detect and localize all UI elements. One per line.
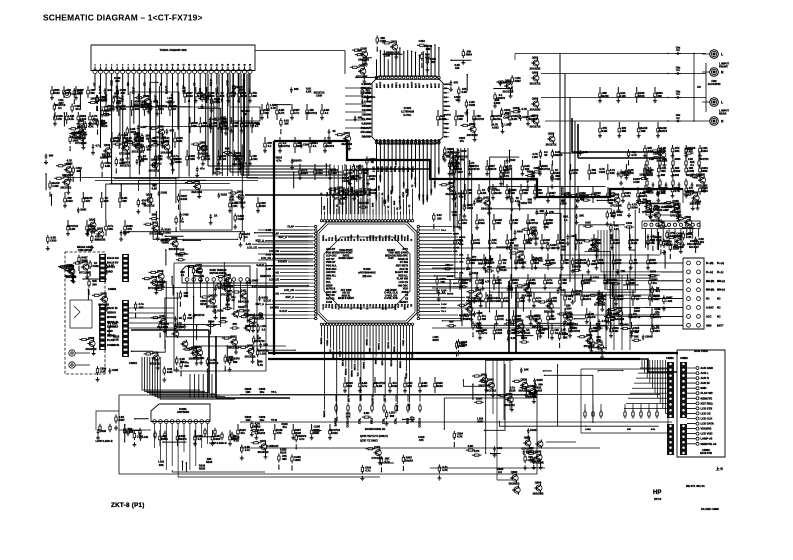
svg-text:560: 560 bbox=[528, 201, 533, 205]
svg-text:1K: 1K bbox=[555, 331, 558, 335]
svg-text:22: 22 bbox=[210, 65, 212, 67]
svg-text:CODE-A: CODE-A bbox=[419, 418, 422, 428]
svg-text:LCD_CE: LCD_CE bbox=[247, 247, 257, 250]
svg-text:16: 16 bbox=[177, 65, 179, 67]
svg-text:R123: R123 bbox=[436, 384, 443, 388]
svg-text:MR-(B): MR-(B) bbox=[706, 280, 714, 283]
svg-text:C204: C204 bbox=[496, 331, 503, 335]
svg-text:2SA1162: 2SA1162 bbox=[191, 190, 202, 194]
svg-text:SEG02: SEG02 bbox=[321, 337, 323, 345]
svg-text:LCD: LCD bbox=[385, 398, 387, 403]
svg-text:0.022: 0.022 bbox=[261, 296, 268, 300]
svg-text:COM0: COM0 bbox=[357, 234, 359, 241]
svg-text:GND: GND bbox=[396, 139, 398, 144]
svg-text:C204: C204 bbox=[645, 334, 652, 338]
svg-text:4.7u: 4.7u bbox=[362, 384, 368, 388]
svg-text:0.01: 0.01 bbox=[617, 213, 623, 217]
svg-text:680: 680 bbox=[147, 148, 152, 152]
svg-text:47K: 47K bbox=[277, 431, 282, 435]
svg-text:2SC2712: 2SC2712 bbox=[189, 357, 200, 361]
svg-text:R215: R215 bbox=[461, 343, 468, 347]
svg-text:2.2K: 2.2K bbox=[100, 99, 106, 103]
svg-text:SW1: SW1 bbox=[427, 138, 429, 144]
svg-text:2SC2712: 2SC2712 bbox=[150, 361, 161, 365]
svg-text:4.7u: 4.7u bbox=[69, 117, 75, 121]
svg-text:10u: 10u bbox=[260, 390, 265, 394]
svg-text:SCHEMATIC DIAGRAM – 1<CT-FX7: SCHEMATIC DIAGRAM – 1<CT-FX719> bbox=[43, 13, 203, 23]
svg-text:10K: 10K bbox=[108, 227, 113, 231]
svg-text:REMOTE: REMOTE bbox=[701, 396, 713, 400]
svg-text:AUX IN: AUX IN bbox=[701, 381, 710, 385]
svg-text:6: 6 bbox=[122, 65, 123, 67]
svg-text:KEY_A: KEY_A bbox=[286, 296, 295, 299]
svg-text:10u/16: 10u/16 bbox=[587, 315, 596, 319]
svg-text:26: 26 bbox=[232, 65, 234, 67]
svg-text:L: L bbox=[721, 100, 723, 104]
svg-text:LCD STB: LCD STB bbox=[701, 406, 713, 410]
svg-text:560: 560 bbox=[478, 261, 483, 265]
svg-text:6.8K: 6.8K bbox=[152, 187, 158, 191]
svg-text:L101: L101 bbox=[142, 435, 148, 439]
svg-text:C316: C316 bbox=[633, 329, 640, 333]
svg-text:ZKT-8 (P1): ZKT-8 (P1) bbox=[111, 502, 145, 509]
svg-text:6.8K: 6.8K bbox=[462, 90, 468, 94]
svg-text:3A DEC 1999: 3A DEC 1999 bbox=[701, 507, 719, 511]
svg-text:47u: 47u bbox=[460, 139, 465, 143]
svg-text:SEG9: SEG9 bbox=[383, 303, 385, 310]
svg-text:D102: D102 bbox=[186, 94, 193, 98]
svg-text:L101: L101 bbox=[666, 299, 672, 303]
svg-text:1S2473: 1S2473 bbox=[293, 158, 303, 162]
svg-text:LOW 0.4SS B: LOW 0.4SS B bbox=[95, 439, 112, 443]
svg-text:2SC2712: 2SC2712 bbox=[467, 133, 478, 137]
svg-text:SI: SI bbox=[411, 239, 413, 241]
svg-text:C316: C316 bbox=[214, 437, 221, 441]
svg-text:C316: C316 bbox=[331, 431, 338, 435]
svg-text:NO-KEY: NO-KEY bbox=[689, 245, 699, 249]
svg-text:0.1: 0.1 bbox=[181, 273, 185, 277]
svg-text:1: 1 bbox=[94, 65, 95, 67]
svg-text:GND: GND bbox=[701, 386, 707, 390]
svg-text:1K: 1K bbox=[503, 261, 506, 265]
svg-text:FRONT: FRONT bbox=[719, 65, 728, 69]
svg-text:DTC114E: DTC114E bbox=[206, 304, 218, 308]
svg-text:47K: 47K bbox=[57, 117, 62, 121]
svg-text:560: 560 bbox=[90, 91, 95, 95]
svg-text:10u/16: 10u/16 bbox=[493, 117, 502, 121]
svg-text:390: 390 bbox=[647, 169, 652, 173]
svg-text:1K: 1K bbox=[232, 298, 235, 302]
svg-text:47K: 47K bbox=[232, 322, 237, 326]
svg-text:33K: 33K bbox=[675, 149, 680, 153]
svg-text:R123: R123 bbox=[546, 281, 553, 285]
svg-text:VLC: VLC bbox=[358, 372, 360, 377]
svg-text:L101: L101 bbox=[252, 157, 258, 161]
svg-text:0.01: 0.01 bbox=[534, 261, 540, 265]
svg-text:R407: R407 bbox=[549, 317, 556, 321]
svg-text:20: 20 bbox=[199, 65, 201, 67]
svg-text:18: 18 bbox=[188, 65, 190, 67]
svg-text:2SC2712: 2SC2712 bbox=[530, 124, 541, 128]
svg-text:5: 5 bbox=[117, 65, 118, 67]
svg-text:2SC2712: 2SC2712 bbox=[473, 117, 484, 121]
svg-text:R123: R123 bbox=[280, 451, 287, 455]
svg-text:TP-R: TP-R bbox=[271, 418, 277, 422]
svg-text:220: 220 bbox=[525, 167, 530, 171]
svg-text:C-VOL STB: C-VOL STB bbox=[384, 297, 398, 300]
svg-text:0.01: 0.01 bbox=[591, 171, 597, 175]
svg-text:0.1: 0.1 bbox=[158, 162, 162, 166]
svg-text:D102: D102 bbox=[161, 191, 168, 195]
svg-text:SEG9: SEG9 bbox=[395, 303, 397, 310]
svg-text:R123: R123 bbox=[206, 460, 213, 464]
svg-text:28: 28 bbox=[243, 65, 245, 67]
svg-text:390: 390 bbox=[92, 282, 97, 286]
svg-text:C410: C410 bbox=[182, 212, 189, 216]
svg-text:GND: GND bbox=[411, 139, 413, 144]
svg-text:R215: R215 bbox=[536, 378, 543, 382]
svg-text:TO-1: TO-1 bbox=[441, 230, 447, 232]
svg-text:MUT: MUT bbox=[408, 83, 410, 88]
svg-text:390: 390 bbox=[458, 117, 463, 121]
svg-text:AIN: AIN bbox=[426, 84, 429, 88]
svg-text:0.022: 0.022 bbox=[492, 126, 499, 130]
svg-text:COM1: COM1 bbox=[327, 339, 329, 346]
svg-text:10u: 10u bbox=[260, 418, 265, 422]
svg-text:MODE2: MODE2 bbox=[107, 315, 117, 319]
svg-text:INT0: INT0 bbox=[335, 303, 337, 309]
svg-text:33K: 33K bbox=[426, 47, 431, 51]
svg-text:0.01: 0.01 bbox=[107, 88, 113, 92]
svg-text:DTC114E: DTC114E bbox=[356, 75, 368, 79]
svg-text:C105: C105 bbox=[546, 221, 553, 225]
svg-text:2.2K: 2.2K bbox=[481, 191, 487, 195]
svg-text:4.7K: 4.7K bbox=[457, 435, 463, 439]
svg-text:2SA1162: 2SA1162 bbox=[98, 303, 109, 307]
svg-text:390: 390 bbox=[462, 221, 467, 225]
svg-text:100: 100 bbox=[284, 122, 289, 126]
svg-text:R407: R407 bbox=[517, 230, 524, 234]
svg-text:ACC: ACC bbox=[706, 315, 712, 318]
svg-text:390: 390 bbox=[115, 79, 120, 83]
svg-text:680: 680 bbox=[449, 320, 454, 324]
svg-text:13: 13 bbox=[160, 65, 162, 67]
svg-text:100K: 100K bbox=[294, 458, 300, 462]
svg-text:2SC2712: 2SC2712 bbox=[546, 142, 557, 146]
svg-text:19: 19 bbox=[194, 65, 196, 67]
svg-text:0.1: 0.1 bbox=[268, 144, 272, 148]
svg-text:220: 220 bbox=[437, 216, 442, 220]
svg-text:SEG2: SEG2 bbox=[370, 234, 372, 241]
svg-text:(M)-xxx: (M)-xxx bbox=[362, 274, 372, 278]
svg-text:4.7K: 4.7K bbox=[121, 107, 127, 111]
svg-text:P-ON: P-ON bbox=[326, 301, 332, 304]
svg-text:CN221: CN221 bbox=[129, 361, 138, 365]
svg-text:SEG2: SEG2 bbox=[398, 234, 400, 241]
svg-text:21: 21 bbox=[205, 65, 207, 67]
svg-text:MR-(B): MR-(B) bbox=[706, 289, 714, 292]
svg-text:uPD780344GC: uPD780344GC bbox=[358, 270, 376, 274]
svg-text:C410: C410 bbox=[633, 180, 640, 184]
svg-text:47K: 47K bbox=[170, 129, 175, 133]
svg-text:VLC: VLC bbox=[348, 398, 350, 403]
svg-text:1K: 1K bbox=[214, 214, 217, 218]
svg-text:GND: GND bbox=[706, 324, 712, 327]
svg-text:P-ON: P-ON bbox=[441, 304, 447, 306]
svg-text:TN101 FAE94P-402: TN101 FAE94P-402 bbox=[159, 48, 186, 52]
svg-text:33K: 33K bbox=[513, 281, 518, 285]
svg-text:390: 390 bbox=[609, 201, 614, 205]
svg-text:390: 390 bbox=[184, 364, 189, 368]
svg-text:12: 12 bbox=[155, 65, 157, 67]
svg-text:VDD(5V): VDD(5V) bbox=[701, 427, 712, 431]
svg-text:2SC2712: 2SC2712 bbox=[245, 355, 256, 359]
svg-text:4.7K: 4.7K bbox=[521, 107, 527, 111]
svg-text:L101: L101 bbox=[532, 155, 538, 159]
svg-text:VDD: VDD bbox=[392, 83, 394, 88]
svg-text:0.022: 0.022 bbox=[461, 281, 468, 285]
svg-text:47K: 47K bbox=[360, 131, 365, 134]
svg-text:SEG: SEG bbox=[385, 199, 387, 204]
svg-text:LC75341M: LC75341M bbox=[401, 109, 414, 113]
svg-text:NC: NC bbox=[717, 307, 721, 310]
svg-text:MAIN 5 GENT: MAIN 5 GENT bbox=[338, 297, 355, 300]
svg-text:2.2: 2.2 bbox=[498, 470, 502, 474]
svg-text:2: 2 bbox=[100, 65, 101, 67]
svg-text:2SC2712: 2SC2712 bbox=[699, 158, 710, 161]
svg-text:11: 11 bbox=[149, 65, 151, 67]
svg-text:0.1: 0.1 bbox=[325, 111, 329, 115]
svg-text:220: 220 bbox=[562, 281, 567, 285]
svg-text:680: 680 bbox=[622, 129, 627, 133]
svg-text:A-BAT: A-BAT bbox=[706, 307, 714, 310]
svg-text:MUT: MUT bbox=[419, 83, 421, 88]
svg-text:10K: 10K bbox=[246, 418, 251, 422]
svg-text:S-DATA: S-DATA bbox=[278, 261, 287, 264]
svg-text:2SA1162: 2SA1162 bbox=[544, 309, 555, 313]
svg-text:10K: 10K bbox=[579, 214, 584, 218]
svg-text:C204: C204 bbox=[565, 306, 572, 310]
svg-text:0.1: 0.1 bbox=[58, 106, 62, 110]
svg-text:100: 100 bbox=[513, 221, 518, 225]
svg-text:R304: R304 bbox=[631, 206, 638, 210]
svg-text:C316: C316 bbox=[130, 130, 137, 134]
svg-text:VLC1: VLC1 bbox=[351, 303, 353, 309]
svg-text:2SC2712: 2SC2712 bbox=[132, 150, 143, 154]
svg-text:LCD CLK: LCD CLK bbox=[701, 417, 713, 421]
svg-text:4.7K: 4.7K bbox=[625, 194, 631, 198]
svg-text:33K: 33K bbox=[139, 305, 144, 309]
svg-text:2SA1162: 2SA1162 bbox=[530, 66, 541, 70]
svg-text:SEG9: SEG9 bbox=[405, 303, 407, 310]
svg-text:9: 9 bbox=[139, 65, 140, 67]
svg-text:FLAP: FLAP bbox=[287, 225, 294, 228]
svg-text:SEG01: SEG01 bbox=[345, 368, 347, 376]
svg-text:47K: 47K bbox=[454, 80, 459, 84]
svg-text:SEG01: SEG01 bbox=[379, 342, 381, 350]
svg-text:FL-(-): FL-(-) bbox=[717, 271, 724, 274]
svg-text:1K: 1K bbox=[568, 297, 571, 301]
svg-text:FLAP SW: FLAP SW bbox=[701, 391, 714, 395]
svg-text:DTC114E: DTC114E bbox=[682, 226, 694, 230]
svg-text:GND: GND bbox=[107, 329, 113, 333]
svg-text:2.2K: 2.2K bbox=[628, 171, 634, 175]
svg-text:AUX GND: AUX GND bbox=[701, 366, 713, 370]
svg-text:4.7u: 4.7u bbox=[299, 437, 305, 441]
svg-text:33K: 33K bbox=[634, 334, 639, 338]
svg-text:47u: 47u bbox=[601, 297, 606, 301]
svg-text:C410: C410 bbox=[472, 271, 479, 275]
svg-text:KEY-R: KEY-R bbox=[391, 360, 393, 367]
svg-text:R123: R123 bbox=[101, 124, 108, 128]
svg-text:HP: HP bbox=[653, 490, 661, 496]
svg-text:1K: 1K bbox=[332, 129, 335, 133]
svg-text:L: L bbox=[721, 52, 723, 56]
svg-text:2SD2012: 2SD2012 bbox=[509, 482, 520, 486]
svg-text:10K: 10K bbox=[611, 315, 616, 319]
svg-text:DTC114E: DTC114E bbox=[79, 270, 91, 274]
svg-text:0.1: 0.1 bbox=[198, 437, 202, 441]
svg-text:4.7K: 4.7K bbox=[442, 468, 448, 472]
svg-text:33K: 33K bbox=[159, 463, 164, 467]
svg-text:SEG02: SEG02 bbox=[351, 369, 353, 377]
svg-text:AIN: AIN bbox=[387, 84, 390, 88]
svg-text:33K: 33K bbox=[520, 299, 525, 303]
svg-text:390: 390 bbox=[641, 129, 646, 133]
svg-text:ZKT-9: ZKT-9 bbox=[654, 497, 662, 501]
svg-text:100: 100 bbox=[180, 248, 185, 252]
svg-text:FL-(+): FL-(+) bbox=[706, 271, 713, 274]
svg-text:SEG2: SEG2 bbox=[408, 234, 410, 241]
svg-text:CODE-A: CODE-A bbox=[347, 418, 350, 428]
svg-text:R407: R407 bbox=[521, 336, 528, 340]
svg-text:2SC2712: 2SC2712 bbox=[306, 111, 317, 115]
svg-text:SEG01: SEG01 bbox=[394, 345, 396, 353]
svg-text:0.01: 0.01 bbox=[544, 225, 550, 229]
svg-text:MUT: MUT bbox=[435, 83, 437, 88]
svg-text:C105: C105 bbox=[314, 425, 321, 429]
svg-text:SEG2: SEG2 bbox=[373, 234, 375, 241]
svg-text:XTAL: XTAL bbox=[359, 417, 362, 424]
svg-text:COM0: COM0 bbox=[395, 234, 397, 241]
svg-text:SEG02: SEG02 bbox=[376, 357, 378, 365]
svg-text:0.01: 0.01 bbox=[347, 384, 353, 388]
svg-text:D102: D102 bbox=[469, 103, 476, 107]
svg-text:NC: NC bbox=[706, 298, 710, 301]
svg-text:C316: C316 bbox=[626, 221, 633, 225]
svg-text:SEG2: SEG2 bbox=[379, 234, 381, 241]
svg-text:4.7u: 4.7u bbox=[482, 331, 488, 335]
svg-text:4.7u: 4.7u bbox=[294, 111, 300, 115]
svg-text:0.01: 0.01 bbox=[187, 316, 193, 320]
svg-text:CSB-S211B: CSB-S211B bbox=[78, 248, 92, 252]
svg-text:10K: 10K bbox=[90, 97, 95, 101]
svg-text:47u: 47u bbox=[240, 431, 245, 435]
svg-text:上 R: 上 R bbox=[716, 466, 723, 471]
svg-text:560: 560 bbox=[390, 414, 395, 418]
svg-text:KEY-R: KEY-R bbox=[373, 398, 375, 405]
svg-text:L101: L101 bbox=[232, 204, 238, 208]
svg-text:0.01: 0.01 bbox=[365, 91, 371, 95]
svg-text:SEG01: SEG01 bbox=[333, 350, 335, 358]
svg-text:C316: C316 bbox=[599, 170, 606, 174]
svg-text:CN602: CN602 bbox=[680, 357, 688, 360]
svg-text:C410: C410 bbox=[254, 424, 261, 428]
svg-text:220: 220 bbox=[174, 157, 179, 161]
svg-text:C316: C316 bbox=[521, 201, 528, 205]
svg-text:2.2K: 2.2K bbox=[306, 89, 312, 93]
svg-text:17: 17 bbox=[183, 65, 185, 67]
svg-text:AN2: AN2 bbox=[453, 250, 458, 253]
svg-text:2SC2712: 2SC2712 bbox=[469, 167, 480, 171]
svg-text:0.1: 0.1 bbox=[519, 261, 523, 265]
svg-text:S-CLK: S-CLK bbox=[263, 300, 271, 303]
svg-text:AM2: AM2 bbox=[422, 138, 425, 143]
svg-text:DOUT: DOUT bbox=[411, 81, 413, 88]
svg-text:SEG9: SEG9 bbox=[386, 303, 388, 310]
svg-text:560: 560 bbox=[264, 111, 269, 115]
svg-text:MUT: MUT bbox=[376, 83, 378, 88]
svg-text:C410: C410 bbox=[50, 239, 57, 243]
svg-text:680: 680 bbox=[122, 199, 127, 203]
svg-text:0.1: 0.1 bbox=[262, 327, 266, 331]
svg-text:SEG02: SEG02 bbox=[324, 410, 326, 418]
svg-text:560: 560 bbox=[445, 263, 450, 267]
svg-text:0.01: 0.01 bbox=[525, 331, 531, 335]
svg-text:DOUT: DOUT bbox=[380, 81, 382, 88]
svg-text:C410: C410 bbox=[66, 199, 73, 203]
svg-text:A-02: A-02 bbox=[266, 268, 272, 271]
svg-text:SERVO: SERVO bbox=[107, 311, 116, 315]
svg-text:27: 27 bbox=[238, 65, 240, 67]
svg-text:2.2K: 2.2K bbox=[113, 338, 119, 342]
svg-text:NC: NC bbox=[717, 315, 721, 318]
svg-text:0.1: 0.1 bbox=[244, 235, 248, 239]
svg-text:NC: NC bbox=[717, 298, 721, 301]
svg-text:0.1: 0.1 bbox=[514, 247, 518, 251]
svg-text:R123: R123 bbox=[500, 268, 507, 272]
svg-text:D102: D102 bbox=[238, 305, 245, 309]
svg-text:KEY REQ: KEY REQ bbox=[701, 401, 713, 405]
svg-text:C204: C204 bbox=[653, 329, 660, 333]
svg-text:6.8K: 6.8K bbox=[105, 164, 111, 168]
svg-text:6.8K: 6.8K bbox=[167, 370, 173, 374]
svg-text:47u: 47u bbox=[492, 241, 497, 245]
svg-text:D102: D102 bbox=[474, 241, 481, 245]
svg-text:C410: C410 bbox=[52, 184, 59, 188]
svg-text:2SC2712: 2SC2712 bbox=[86, 347, 97, 351]
svg-text:2.2K: 2.2K bbox=[498, 317, 504, 321]
svg-text:MR-(+): MR-(+) bbox=[717, 280, 725, 283]
svg-text:2SC2712: 2SC2712 bbox=[258, 450, 269, 454]
svg-text:4.7u: 4.7u bbox=[370, 95, 376, 99]
svg-text:SEG02: SEG02 bbox=[400, 361, 402, 369]
svg-text:C105: C105 bbox=[494, 299, 501, 303]
svg-text:L101: L101 bbox=[698, 240, 704, 244]
svg-text:100: 100 bbox=[455, 66, 460, 70]
svg-text:33K: 33K bbox=[563, 335, 568, 339]
svg-text:C410: C410 bbox=[487, 299, 494, 303]
svg-text:LAMP +B: LAMP +B bbox=[701, 437, 713, 441]
svg-text:3-SY: 3-SY bbox=[388, 257, 394, 260]
svg-text:2SC2712: 2SC2712 bbox=[539, 167, 550, 171]
svg-text:BATT: BATT bbox=[717, 324, 724, 327]
svg-text:680: 680 bbox=[282, 457, 287, 461]
svg-text:XTAL: XTAL bbox=[383, 417, 386, 424]
svg-text:1K: 1K bbox=[179, 316, 182, 320]
svg-text:AM2: AM2 bbox=[383, 138, 386, 143]
svg-text:Q787 YZ ONLY: Q787 YZ ONLY bbox=[360, 439, 378, 443]
